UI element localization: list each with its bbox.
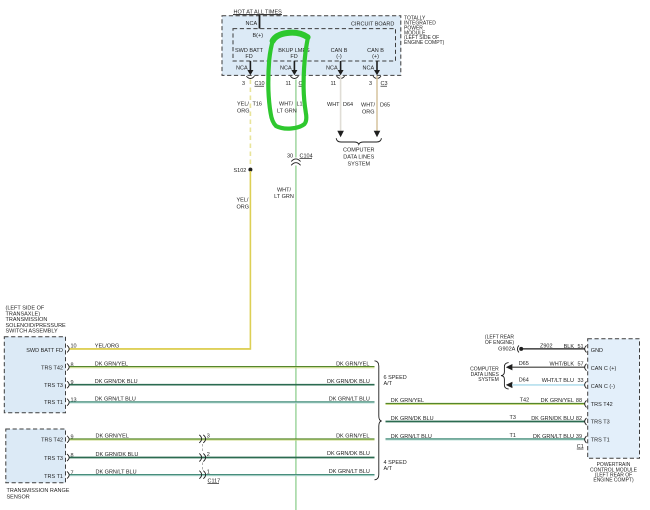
transmission solenoid/pressure switch assembly box (4, 337, 65, 413)
inline connector C117 pin 1 (199, 471, 201, 479)
pin TRS T1 (585, 436, 587, 443)
pin TRS T3 (585, 418, 587, 425)
svg-text:WHT/LT BLU: WHT/LT BLU (542, 378, 574, 384)
output wire DK GRN/DK BLU (brace to PCM) (386, 421, 585, 423)
pin GND (585, 345, 587, 352)
NCA pin arrow CAN B (+) (376, 61, 378, 71)
svg-text:CAN C (+): CAN C (+) (591, 366, 617, 372)
svg-text:11: 11 (331, 81, 337, 87)
svg-text:33: 33 (578, 378, 584, 384)
svg-text:D64: D64 (343, 102, 353, 108)
svg-text:T42: T42 (520, 397, 529, 403)
NCA pin arrow BKUP LMPS FD (293, 61, 295, 71)
svg-text:T1: T1 (510, 433, 516, 439)
inline connector C117 pin 2 (199, 454, 201, 462)
svg-text:B(+): B(+) (253, 33, 264, 39)
arrowhead WHT/ORG (374, 131, 381, 137)
svg-text:DK GRN/YEL: DK GRN/YEL (391, 398, 424, 404)
wire WHT/ORG (to data lines arrow) (376, 76, 378, 132)
svg-text:G902A: G902A (498, 346, 515, 352)
inline connector C117 pin 3 (199, 435, 201, 443)
svg-text:YEL/: YEL/ (237, 198, 249, 204)
svg-text:TRS T42: TRS T42 (591, 402, 613, 408)
svg-text:COMPUTER: COMPUTER (343, 147, 375, 153)
svg-text:CAN C (-): CAN C (-) (591, 384, 615, 390)
svg-text:LT GRN: LT GRN (277, 108, 297, 114)
svg-text:DK GRN/DK BLU: DK GRN/DK BLU (391, 416, 434, 422)
svg-text:CIRCUIT BOARD: CIRCUIT BOARD (351, 22, 394, 28)
svg-text:TRS T3: TRS T3 (44, 383, 63, 389)
svg-text:ENGINE COMPT): ENGINE COMPT) (404, 40, 445, 46)
svg-text:DATA LINES: DATA LINES (343, 154, 374, 160)
svg-text:SYSTEM: SYSTEM (478, 377, 499, 383)
svg-text:3: 3 (242, 81, 245, 87)
connector cup C8 (290, 76, 298, 78)
arrow CAN C (-) to data lines (506, 382, 513, 388)
svg-text:WHT/: WHT/ (279, 101, 294, 107)
output wire DK GRN/LT BLU (brace to PCM) (386, 438, 585, 440)
brace computer data lines (right) (501, 363, 509, 389)
svg-text:DK GRN/YEL: DK GRN/YEL (336, 434, 369, 440)
svg-text:NCA: NCA (326, 65, 338, 71)
svg-text:DK GRN/YEL: DK GRN/YEL (336, 361, 369, 367)
svg-text:DK GRN/LT BLU: DK GRN/LT BLU (329, 469, 370, 475)
svg-text:SWD BATT FD: SWD BATT FD (26, 348, 63, 354)
svg-text:S102: S102 (234, 168, 247, 174)
svg-text:TRS T3: TRS T3 (591, 419, 610, 425)
wire DK GRN/YEL (box2 T42 to brace) (70, 438, 375, 440)
svg-text:DK GRN/YEL: DK GRN/YEL (96, 434, 129, 440)
svg-text:WHT/: WHT/ (277, 188, 292, 194)
svg-text:FD: FD (245, 54, 252, 60)
annotation green highlighter loop around BKUP LMPS FD circuit (268, 38, 308, 129)
svg-text:TRANSMISSION RANGE: TRANSMISSION RANGE (7, 488, 70, 494)
wire WHT/LT BLU (CAN C -) (512, 384, 585, 386)
svg-text:TRS T1: TRS T1 (44, 400, 63, 406)
svg-text:3: 3 (207, 434, 210, 440)
svg-text:39: 39 (576, 434, 582, 440)
svg-text:NCA: NCA (363, 65, 375, 71)
svg-text:D65: D65 (380, 103, 390, 109)
NCA pin arrow SWD BATT FD (249, 61, 251, 71)
svg-text:DK GRN/DK BLU: DK GRN/DK BLU (96, 452, 139, 458)
svg-text:DK GRN/LT BLU: DK GRN/LT BLU (96, 469, 137, 475)
svg-text:(+): (+) (372, 54, 379, 60)
svg-text:ORG: ORG (237, 205, 250, 211)
svg-text:BLK: BLK (564, 344, 575, 350)
svg-text:ORG: ORG (362, 110, 375, 116)
svg-text:D64: D64 (519, 377, 529, 383)
arrowhead WHT (337, 131, 344, 137)
svg-text:NCA: NCA (236, 65, 248, 71)
svg-text:WHT/: WHT/ (361, 103, 376, 109)
svg-text:YEL/: YEL/ (237, 101, 249, 107)
svg-text:51: 51 (578, 344, 584, 350)
svg-text:TRS T1: TRS T1 (591, 437, 610, 443)
svg-text:2: 2 (207, 452, 210, 458)
splice S102 (248, 168, 252, 172)
connector cup C3 (373, 76, 381, 78)
svg-text:11: 11 (286, 81, 292, 87)
wire DK GRN/LT BLU (box2 T1 to brace) (70, 474, 375, 476)
svg-text:T3: T3 (510, 415, 516, 421)
wire DK GRN/YEL (box1 T42 to brace) (70, 366, 375, 368)
svg-text:DK GRN/DK BLU: DK GRN/DK BLU (327, 451, 370, 457)
svg-text:SWITCH ASSEMBLY: SWITCH ASSEMBLY (6, 329, 58, 335)
svg-text:L1: L1 (297, 101, 303, 107)
totally integrated power module box (TIPM outer box) (222, 16, 401, 76)
svg-text:OF ENGINE): OF ENGINE) (485, 340, 515, 346)
svg-text:DK GRN/LT BLU: DK GRN/LT BLU (533, 434, 574, 440)
svg-text:3: 3 (369, 81, 372, 87)
wire YEL/ORG (box1 row1) (70, 348, 251, 350)
connector cup CAN B (-) (337, 76, 345, 78)
NCA pin arrow CAN B (-) (340, 61, 342, 71)
svg-text:SYSTEM: SYSTEM (347, 162, 370, 168)
svg-text:TRS T3: TRS T3 (44, 456, 63, 462)
svg-text:SENSOR: SENSOR (7, 494, 30, 500)
svg-text:LT GRN: LT GRN (274, 194, 294, 200)
connector cup C10 (246, 76, 254, 78)
svg-text:DK GRN/DK BLU: DK GRN/DK BLU (531, 416, 574, 422)
wire WHT (to data lines arrow) (340, 76, 342, 132)
svg-text:30: 30 (287, 153, 293, 159)
svg-text:ORG: ORG (237, 108, 250, 114)
svg-text:NCA: NCA (280, 65, 292, 71)
svg-text:TRS T42: TRS T42 (41, 365, 63, 371)
svg-text:TRS T42: TRS T42 (41, 438, 63, 444)
svg-text:57: 57 (578, 361, 584, 367)
circuit board inner box (233, 29, 396, 61)
wire DK GRN/LT BLU (box1 T1 to brace) (70, 401, 375, 403)
svg-text:DK GRN/LT BLU: DK GRN/LT BLU (95, 397, 136, 403)
svg-text:GND: GND (591, 348, 603, 354)
svg-text:A/T: A/T (384, 381, 393, 387)
svg-text:YEL/ORG: YEL/ORG (95, 344, 119, 350)
wire YEL/ORG solid (S102 down and left to solenoid box) (70, 171, 251, 349)
pin CAN C (+) (585, 364, 587, 371)
svg-text:T16: T16 (253, 101, 262, 107)
merge brace (6 wires to 3) (375, 361, 382, 480)
output wire DK GRN/YEL (brace to PCM) (386, 402, 585, 404)
svg-text:Z902: Z902 (540, 343, 553, 349)
wire BLK (ground to PCM GND) (523, 348, 585, 350)
svg-text:1: 1 (207, 469, 210, 475)
svg-text:88: 88 (576, 398, 582, 404)
wire YEL/ORG dashed (C10 to S102) (249, 80, 251, 169)
feed underline (233, 14, 282, 16)
svg-text:WHT: WHT (327, 102, 340, 108)
svg-text:82: 82 (576, 416, 582, 422)
svg-text:WHT/BLK: WHT/BLK (550, 361, 575, 367)
svg-text:DK GRN/DK BLU: DK GRN/DK BLU (95, 379, 138, 385)
svg-text:D65: D65 (519, 361, 529, 367)
wire WHT/LT GRN (C104 to bottom of page) (295, 166, 297, 510)
svg-text:A/T: A/T (384, 466, 393, 472)
arrow CAN C (+) to data lines (506, 364, 513, 370)
wire WHT/BLK (CAN C +) (512, 366, 585, 368)
svg-text:FD: FD (290, 54, 297, 60)
svg-text:DK GRN/YEL: DK GRN/YEL (95, 361, 128, 367)
svg-text:NCA: NCA (246, 21, 258, 27)
wire DK GRN/DK BLU (box1 T3 to brace) (70, 384, 375, 386)
svg-text:TRS T1: TRS T1 (44, 474, 63, 480)
wire DK GRN/DK BLU (box2 T3 to brace) (70, 457, 375, 459)
svg-text:DK GRN/LT BLU: DK GRN/LT BLU (329, 397, 370, 403)
brace computer data lines (top) (336, 138, 381, 144)
feed wire B(+) (259, 15, 261, 29)
C117 connector dashed link (202, 444, 204, 470)
pin CAN C (-) (585, 381, 587, 388)
pin TRS T42 (585, 400, 587, 407)
svg-text:DK GRN/LT BLU: DK GRN/LT BLU (391, 434, 432, 440)
svg-text:DK GRN/DK BLU: DK GRN/DK BLU (327, 379, 370, 385)
wire WHT/LT GRN (C8 down, upper segment) (295, 80, 297, 158)
powertrain control module box (PCM) (588, 339, 640, 459)
svg-text:ENGINE COMPT): ENGINE COMPT) (593, 478, 634, 484)
svg-text:DK GRN/YEL: DK GRN/YEL (541, 398, 574, 404)
svg-text:(-): (-) (336, 54, 342, 60)
transmission range sensor box (6, 429, 66, 483)
